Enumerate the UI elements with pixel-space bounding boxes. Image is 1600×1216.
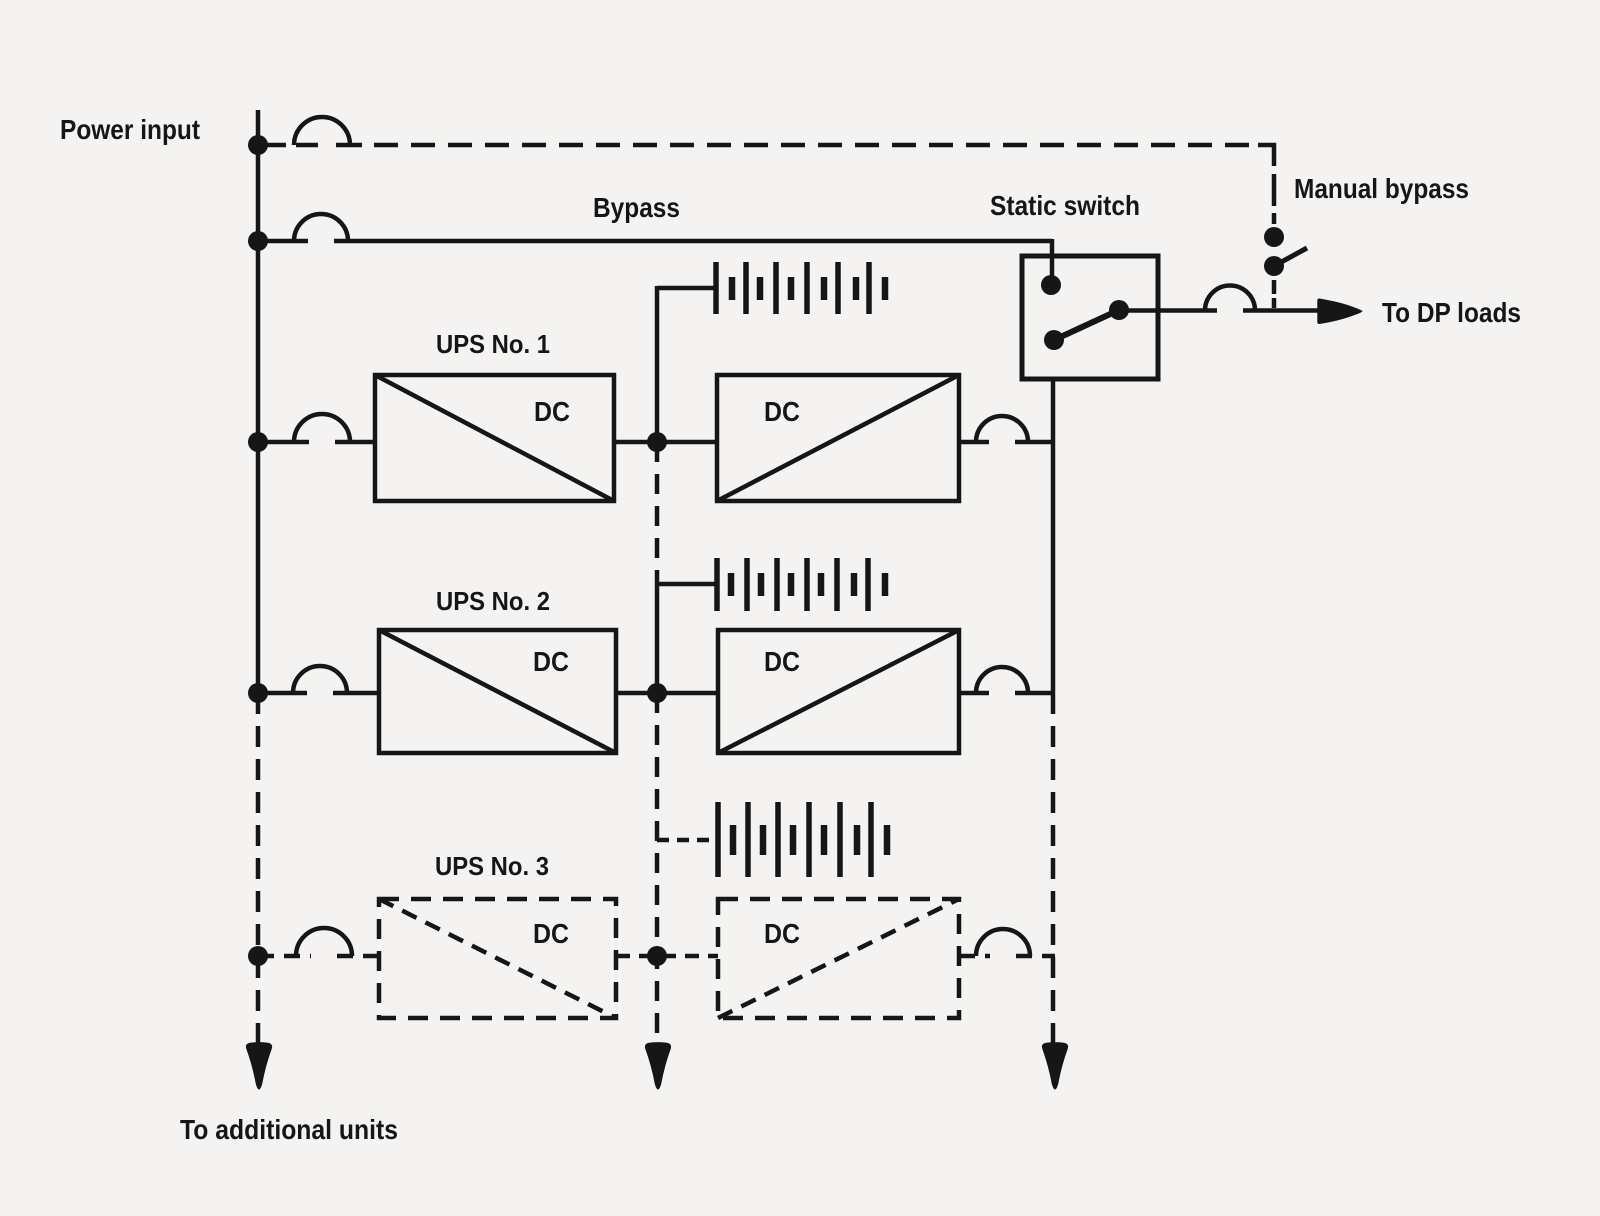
- breaker CB3-in: [296, 928, 352, 956]
- wire output to DP loads: [1119, 308, 1321, 313]
- switch blade manual bypass (open): [1274, 248, 1307, 266]
- arrow output bus bottom: [1042, 1042, 1068, 1090]
- battery B2 lead: [657, 582, 717, 587]
- static switch box: [1022, 256, 1158, 379]
- svg-text:To DP loads: To DP loads: [1382, 297, 1521, 328]
- rectifier UPS1: [375, 375, 614, 501]
- node manual bypass top contact: [1264, 227, 1284, 247]
- svg-text:DC: DC: [764, 918, 800, 949]
- breaker CB2-in: [293, 666, 347, 693]
- wire bypass line: [258, 239, 1052, 285]
- battery B3 lead (dashed): [657, 838, 717, 843]
- wire left input bus (solid part): [256, 110, 261, 693]
- node power input junction: [248, 135, 268, 155]
- node UPS2 input junction: [248, 683, 268, 703]
- battery B1: [716, 262, 885, 314]
- svg-text:DC: DC: [764, 646, 800, 677]
- svg-text:UPS No. 3: UPS No. 3: [435, 851, 549, 881]
- svg-text:DC: DC: [764, 396, 800, 427]
- wire manual bypass to output line: [1272, 280, 1277, 294]
- wire left input bus (dashed part): [256, 693, 261, 1046]
- breaker CB-top on feeder: [294, 117, 350, 145]
- wire UPS3 DC link (dashed): [616, 954, 718, 959]
- breaker CB1-in: [294, 414, 350, 442]
- node static switch inverter-side contact: [1044, 330, 1064, 350]
- wire UPS1 DC link: [614, 440, 717, 445]
- battery B3: [718, 802, 887, 877]
- manual bypass switch: [1264, 227, 1307, 308]
- wire UPS2 DC link: [616, 691, 718, 696]
- battery B1 lead: [657, 286, 716, 291]
- wire top feeder dashed line to manual bypass: [258, 145, 1274, 224]
- wire static switch output bus (dashed): [1051, 693, 1056, 1046]
- wire static switch output bus (solid): [1051, 379, 1056, 693]
- node bypass junction: [248, 231, 268, 251]
- rectifier UPS2: [379, 630, 616, 753]
- svg-text:Manual bypass: Manual bypass: [1294, 173, 1469, 204]
- inverter UPS3 (dashed): [718, 899, 959, 1018]
- node UPS3 input junction: [248, 946, 268, 966]
- wire UPS1 input: [258, 440, 375, 445]
- node static switch common pole: [1109, 300, 1129, 320]
- svg-text:Static switch: Static switch: [990, 190, 1140, 221]
- node UPS1 input junction: [248, 432, 268, 452]
- switch blade static switch: [1054, 310, 1119, 340]
- svg-text:UPS No. 2: UPS No. 2: [436, 586, 550, 616]
- wire UPS1 output: [959, 440, 1055, 445]
- wire UPS2 output: [959, 691, 1055, 696]
- breaker CB-output: [1205, 286, 1255, 311]
- node DC link UPS1: [647, 432, 667, 452]
- wire UPS3 input (dashed): [258, 954, 379, 959]
- wire UPS3 output (dashed): [959, 954, 1055, 959]
- arrow to additional units (left): [246, 1042, 272, 1090]
- svg-text:Power input: Power input: [60, 114, 200, 145]
- breaker CB1-out: [976, 416, 1028, 442]
- breaker CB2-out: [976, 667, 1028, 693]
- node DC link UPS3: [647, 946, 667, 966]
- node manual bypass bottom contact: [1264, 256, 1284, 276]
- svg-text:UPS No. 1: UPS No. 1: [436, 329, 550, 359]
- wire DC link bus (middle column): [655, 286, 660, 1046]
- svg-text:DC: DC: [534, 396, 570, 427]
- node DC link UPS2: [647, 683, 667, 703]
- rectifier UPS3 (dashed): [379, 899, 616, 1018]
- node static switch bypass-side contact: [1041, 275, 1061, 295]
- battery B2: [717, 558, 885, 611]
- inverter UPS1: [717, 375, 959, 501]
- svg-text:To additional units: To additional units: [180, 1114, 398, 1145]
- breaker CB-bypass: [294, 214, 348, 241]
- svg-text:DC: DC: [533, 918, 569, 949]
- arrow to DP loads: [1317, 298, 1362, 324]
- arrow DC bus bottom: [645, 1042, 671, 1090]
- wire UPS2 input: [258, 691, 379, 696]
- svg-text:Bypass: Bypass: [593, 192, 680, 223]
- breaker CB3-out: [976, 929, 1030, 956]
- inverter UPS2: [718, 630, 959, 753]
- svg-text:DC: DC: [533, 646, 569, 677]
